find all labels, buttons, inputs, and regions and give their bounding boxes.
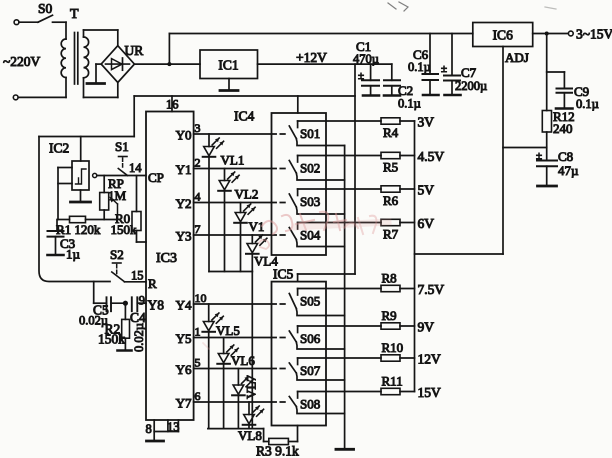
svg-text:4: 4 — [195, 190, 201, 204]
svg-text:47µ: 47µ — [558, 163, 579, 178]
counter IC3 — [146, 112, 194, 421]
svg-text:150k: 150k — [111, 222, 138, 237]
svg-text:Y6: Y6 — [176, 362, 192, 377]
svg-text:16: 16 — [166, 98, 179, 112]
resistor R0 150k — [111, 176, 147, 243]
resistor R10 — [381, 340, 415, 361]
svg-text:0.1µ: 0.1µ — [398, 97, 421, 111]
wire LED cathode bus (lower group) — [208, 428, 264, 430]
bridge rectifier UR — [101, 43, 143, 83]
wire ADJ to R12/C8 junction — [503, 147, 547, 149]
transformer T — [61, 7, 118, 97]
svg-text:5V: 5V — [418, 183, 435, 198]
LED VL2 — [218, 169, 258, 272]
wire ADJ tap to divider bus — [415, 253, 504, 255]
resistor R3 9.1k — [256, 438, 299, 458]
svg-text:2: 2 — [195, 156, 201, 170]
wire Y2 row — [176, 190, 272, 212]
capacitor C4 — [130, 297, 146, 352]
capacitor C2 — [384, 64, 421, 110]
svg-text:R7: R7 — [383, 227, 399, 242]
resistor R6 — [381, 186, 415, 208]
IC2 section outer wiring — [39, 137, 134, 282]
svg-text:S0: S0 — [38, 1, 53, 16]
regulator IC1 — [200, 50, 258, 79]
ground (IC1) — [220, 79, 238, 91]
svg-text:VL5: VL5 — [216, 323, 240, 338]
svg-text:VL8: VL8 — [238, 428, 262, 443]
wire upper cathode drain — [251, 272, 253, 429]
svg-text:R11: R11 — [382, 374, 403, 389]
wire raw DC riser — [168, 34, 170, 65]
wire Y6 row — [176, 356, 272, 378]
wire cathode bus to R3 — [264, 429, 269, 442]
LED VL6 — [217, 338, 255, 429]
wire S02 output row — [298, 155, 381, 157]
LED VL7 — [232, 369, 258, 429]
capacitor C8 — [536, 149, 579, 185]
svg-text:1M: 1M — [108, 188, 127, 203]
LED VL4 — [246, 235, 278, 272]
svg-text:S06: S06 — [300, 331, 321, 346]
svg-text:S05: S05 — [300, 294, 320, 309]
svg-text:IC5: IC5 — [273, 267, 294, 282]
svg-text:~220V: ~220V — [3, 54, 41, 69]
svg-text:Y1: Y1 — [176, 162, 192, 177]
svg-text:10: 10 — [195, 291, 207, 305]
resistor R11 — [381, 374, 415, 395]
svg-text:VL2: VL2 — [235, 187, 259, 202]
svg-text:R6: R6 — [383, 193, 399, 208]
capacitor C3 — [48, 220, 81, 262]
wire S06 output row — [298, 325, 381, 327]
LED VL8 — [238, 402, 264, 443]
svg-text:Y2: Y2 — [176, 196, 192, 211]
wire +12V bus vertical — [354, 64, 356, 274]
wire S07 output row — [298, 357, 381, 359]
wire S04 output row — [298, 222, 381, 224]
wire bridge to IC1 — [134, 63, 200, 65]
schmitt trigger U (IC2) — [72, 137, 97, 191]
wire top rail to IC6 — [169, 33, 472, 35]
wire IC5 feed stub — [297, 274, 299, 282]
analog switch IC5 — [272, 267, 327, 426]
svg-text:Y4: Y4 — [176, 298, 192, 313]
svg-text:12V: 12V — [418, 352, 442, 367]
wire Y1 row — [176, 156, 272, 178]
wire ADJ pin down — [502, 47, 504, 255]
svg-text:S2: S2 — [110, 247, 124, 262]
svg-text:14: 14 — [129, 161, 142, 175]
ground (switch bus) — [336, 448, 354, 451]
analog switch IC4 — [234, 109, 326, 256]
regulator IC6 — [473, 23, 533, 47]
svg-text:S1: S1 — [115, 139, 129, 154]
switch S03 — [272, 189, 345, 214]
switch S06 — [272, 326, 345, 349]
LED VL3 — [234, 203, 264, 272]
resistor R9 — [381, 308, 415, 329]
svg-text:5: 5 — [195, 356, 201, 370]
wire +12V rail lower — [134, 95, 355, 97]
svg-text:R9: R9 — [382, 308, 397, 323]
svg-text:S02: S02 — [300, 161, 320, 176]
wire LED cathode bus (upper group) — [209, 271, 252, 273]
switch S2 — [110, 247, 125, 282]
svg-text:6: 6 — [195, 389, 201, 403]
svg-text:9: 9 — [139, 294, 145, 308]
wire IC6 output — [533, 33, 569, 35]
wire rail drop to IC2 — [133, 96, 135, 137]
svg-text:2200µ: 2200µ — [455, 79, 487, 93]
svg-text:0.1µ: 0.1µ — [408, 60, 431, 74]
svg-text:S01: S01 — [300, 126, 320, 141]
svg-text:R3 9.1k: R3 9.1k — [256, 444, 299, 458]
wire Y7 row — [176, 389, 272, 411]
svg-text:470µ: 470µ — [353, 52, 379, 66]
wire output down — [546, 34, 548, 111]
capacitor C9 — [547, 72, 599, 111]
svg-text:VL7: VL7 — [244, 375, 259, 399]
svg-text:±: ± — [441, 63, 447, 75]
resistor R2 150k — [98, 303, 132, 350]
svg-text:Y8: Y8 — [148, 298, 165, 313]
svg-text:S03: S03 — [300, 194, 320, 209]
ground (IC3 pin 8) — [146, 420, 164, 441]
node output junction — [545, 32, 549, 36]
capacitor C6 — [408, 34, 439, 96]
resistor R12 — [542, 109, 574, 136]
svg-text:6V: 6V — [418, 216, 435, 231]
svg-text:R1 120k: R1 120k — [56, 222, 101, 237]
LED VL5 — [202, 304, 239, 429]
svg-text:IC2: IC2 — [49, 141, 69, 156]
svg-text:R: R — [148, 276, 157, 291]
svg-text:IC6: IC6 — [493, 28, 514, 43]
svg-text:3~15V: 3~15V — [576, 27, 612, 42]
resistor R8 — [381, 271, 415, 292]
resistor R4 — [381, 118, 415, 140]
wire IC1 output +12V — [258, 63, 392, 65]
wire schmitt inputs — [58, 168, 72, 220]
svg-text:Y3: Y3 — [176, 229, 192, 244]
svg-text:IC3: IC3 — [156, 251, 177, 266]
pin 16 stub — [171, 96, 173, 112]
svg-text:IC1: IC1 — [218, 58, 238, 73]
svg-text:Y5: Y5 — [176, 331, 192, 346]
ground (bridge) — [87, 64, 105, 83]
svg-text:R10: R10 — [382, 340, 404, 355]
resistor R1 120k — [56, 216, 118, 237]
switch S01 — [272, 121, 345, 146]
svg-text:1µ: 1µ — [66, 247, 81, 262]
potentiometer RP 1M — [100, 176, 127, 220]
wire R3 to IC5 box — [297, 426, 299, 442]
svg-text:0.02µ: 0.02µ — [132, 323, 146, 352]
svg-text:150k: 150k — [98, 332, 125, 347]
svg-text:T: T — [70, 7, 79, 22]
node raw DC junction — [167, 62, 171, 66]
ground (IC2) — [71, 190, 91, 202]
wire S03 output row — [298, 188, 381, 190]
pin 13 strap — [154, 420, 179, 434]
svg-text:UR: UR — [125, 43, 144, 58]
svg-text:3V: 3V — [418, 115, 435, 130]
svg-text:ADJ: ADJ — [505, 50, 529, 65]
svg-text:15: 15 — [131, 269, 144, 283]
svg-text:IC4: IC4 — [234, 109, 255, 124]
wire S05 output row — [298, 288, 381, 290]
svg-text:C4: C4 — [130, 310, 146, 325]
svg-text:S07: S07 — [300, 363, 321, 378]
switch S04 — [272, 223, 345, 247]
wire divider bus — [414, 121, 416, 392]
AC terminal lower — [13, 95, 66, 100]
svg-text:7.5V: 7.5V — [418, 282, 445, 297]
wire IC4 feed stub — [297, 96, 299, 113]
switch S07 — [272, 358, 345, 380]
capacitor C7 — [441, 34, 487, 96]
wire C5 branch — [94, 282, 107, 304]
svg-text:240: 240 — [553, 121, 573, 136]
svg-text:13: 13 — [167, 420, 180, 434]
svg-text:R5: R5 — [383, 160, 398, 175]
node C5/C4/R2 — [123, 301, 128, 306]
svg-text:R8: R8 — [382, 271, 397, 286]
svg-text:8: 8 — [146, 422, 152, 436]
LED VL1 — [203, 134, 245, 272]
wire pin15 row — [125, 281, 147, 283]
svg-text:CP: CP — [148, 170, 164, 185]
wire Y4 row — [176, 291, 272, 313]
capacitor C1 — [353, 39, 379, 96]
svg-text:Y7: Y7 — [176, 396, 192, 411]
svg-text:0.1µ: 0.1µ — [576, 97, 599, 111]
wire Y0 row — [176, 121, 272, 143]
wire S01 output row — [298, 120, 381, 122]
switch S0 — [14, 1, 66, 25]
svg-text:R4: R4 — [383, 125, 399, 140]
svg-text:VL1: VL1 — [221, 153, 245, 168]
wire switch common bus — [344, 146, 346, 449]
ground (C8) — [538, 185, 557, 188]
wire S08 output row — [298, 391, 381, 393]
switch S02 — [272, 156, 345, 181]
svg-text:+12V: +12V — [296, 50, 327, 65]
scan marks — [388, 2, 556, 11]
svg-text:15V: 15V — [418, 385, 442, 400]
svg-text:C8: C8 — [558, 149, 573, 164]
svg-text:3: 3 — [195, 121, 201, 135]
svg-text:7: 7 — [195, 222, 201, 236]
svg-text:9V: 9V — [418, 320, 435, 335]
svg-text:1: 1 — [195, 325, 201, 339]
output terminal 3~15V — [568, 27, 612, 42]
switch S05 — [272, 289, 345, 316]
switch S08 — [272, 392, 345, 414]
capacitor C5 — [79, 297, 125, 327]
resistor R7 — [381, 219, 415, 241]
resistor R5 — [381, 152, 415, 174]
svg-text:C7: C7 — [461, 65, 477, 80]
switch S1 — [115, 139, 129, 176]
svg-text:Y0: Y0 — [176, 128, 192, 143]
svg-text:S08: S08 — [300, 397, 320, 412]
wire Y3 row — [176, 222, 272, 244]
wire schmitt output to CP — [97, 175, 146, 177]
svg-text:4.5V: 4.5V — [418, 149, 445, 164]
wire IC5 feed horizontal — [298, 273, 355, 275]
wire Y5 row — [176, 325, 272, 347]
